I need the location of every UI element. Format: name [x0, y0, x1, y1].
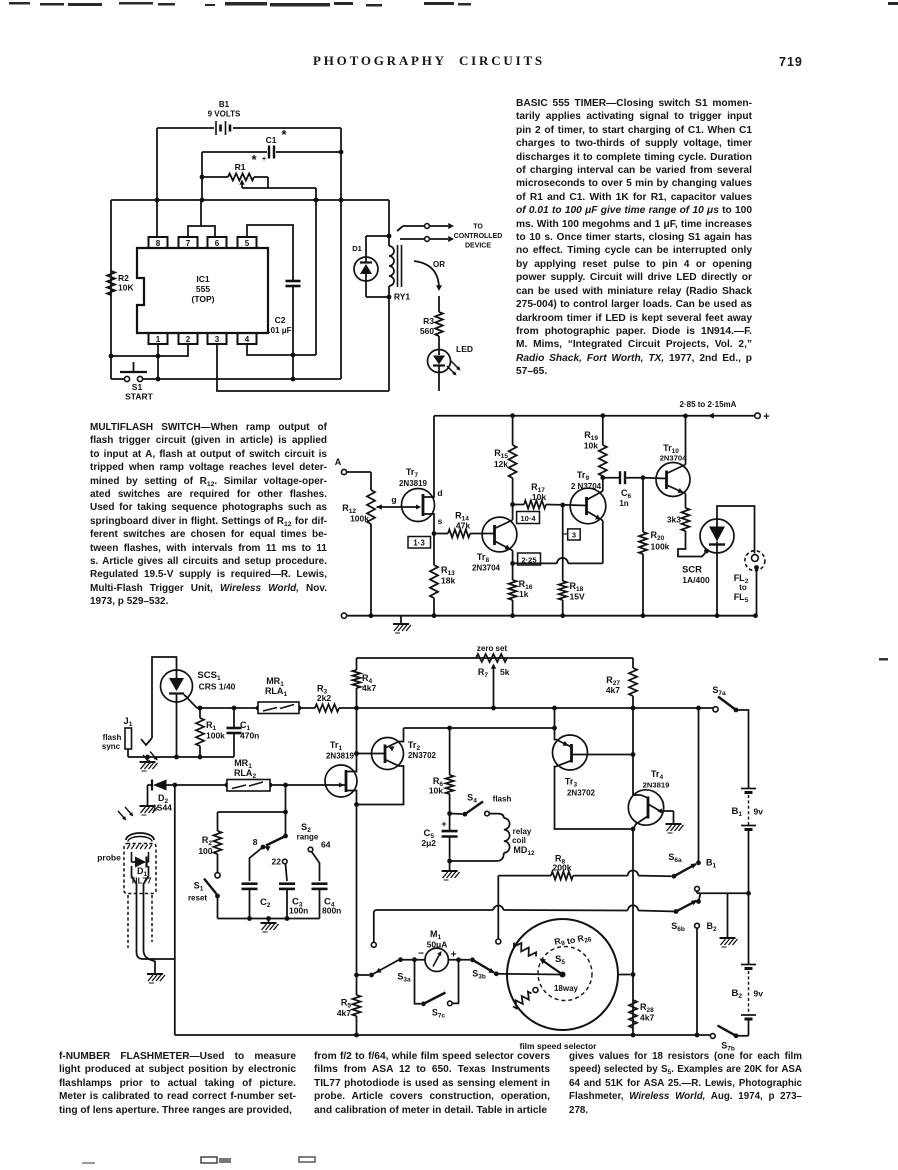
svg-text:flash: flash [103, 733, 122, 742]
svg-text:g: g [391, 495, 396, 505]
transistor Tr8 2N3704 [472, 517, 517, 572]
wire battery right vertical [339, 128, 344, 379]
battery B2 9V [732, 893, 764, 1036]
resistor R28 4k7 [629, 1000, 654, 1028]
svg-text:100k: 100k [651, 542, 670, 552]
capacitor C5 2u2 [421, 814, 457, 864]
svg-text:R2: R2 [118, 273, 129, 283]
svg-text:to: to [739, 583, 747, 592]
resistor R8 200k [498, 854, 671, 880]
wire dial to R28 [618, 974, 631, 976]
wire RLA2 to Tr1 gate [270, 783, 327, 788]
wire to SCR gate [678, 531, 709, 557]
pin 2 [179, 333, 198, 344]
wire SCR anode loop [717, 506, 755, 554]
light arrows probe [118, 807, 133, 821]
svg-text:MD12: MD12 [513, 845, 535, 857]
svg-text:zero set: zero set [477, 644, 508, 653]
svg-text:2 N3704: 2 N3704 [571, 482, 602, 491]
svg-text:22: 22 [272, 857, 282, 867]
relay contact upper TO CONTROLLED DEVICE [397, 223, 454, 231]
rectifier MR1 RLA2 [225, 758, 273, 791]
probe body and cable [132, 866, 175, 964]
svg-text:Tr4: Tr4 [651, 769, 664, 781]
node + supply terminal 2.85 to 2.15mA [434, 400, 770, 423]
relay RY1 [387, 200, 411, 391]
svg-text:C1: C1 [266, 135, 277, 145]
svg-text:+: + [451, 950, 457, 961]
long probe vertical [174, 785, 176, 1035]
pin 8 [149, 237, 168, 248]
wire S6b B2 drop [695, 928, 700, 1037]
resistor R17 10k [513, 482, 569, 509]
svg-text:3: 3 [572, 531, 576, 540]
rail bottom [175, 1034, 710, 1036]
transistor Tr2 2N3702 [357, 728, 437, 805]
transistor Tr3 2N3702 [552, 706, 635, 832]
svg-text:3: 3 [215, 335, 220, 344]
OR arrow [414, 260, 445, 291]
switch S1 reset [188, 873, 220, 919]
wire main horizontal bus [111, 199, 389, 201]
svg-text:2N3704: 2N3704 [660, 454, 687, 463]
wire Tr10 collector [683, 414, 688, 465]
svg-text:18k: 18k [441, 576, 455, 586]
wire pins 7-6 bracket [188, 200, 215, 237]
resistor R20 100k [639, 475, 670, 618]
wire pin 2 drop [109, 344, 188, 358]
label TO CONTROLLED DEVICE [454, 224, 503, 250]
svg-text:−: − [418, 949, 424, 960]
svg-text:18way: 18way [554, 984, 579, 993]
svg-text:SCS1: SCS1 [197, 670, 221, 682]
ground symbol C5 [442, 861, 460, 880]
svg-text:(TOP): (TOP) [192, 294, 215, 304]
capacitor C2 [242, 847, 271, 921]
scan artifacts top edge [9, 2, 898, 7]
thyristor SCS1 CRS 1/40 [161, 670, 236, 708]
svg-text:10k: 10k [532, 492, 546, 502]
svg-text:100: 100 [198, 846, 212, 856]
svg-text:10k: 10k [429, 786, 443, 796]
wire Tr9 emitter vertical [602, 521, 604, 564]
switch S4 flash [447, 793, 511, 817]
resistor R13 18k [430, 534, 455, 619]
LED [428, 344, 474, 391]
svg-text:2k2: 2k2 [317, 693, 331, 703]
resistor R3 560 [420, 296, 443, 350]
node s junction [432, 531, 437, 536]
svg-text:A: A [335, 457, 342, 467]
resistor R19 10k [584, 413, 607, 491]
svg-text:S7a: S7a [712, 685, 726, 697]
rail 3 [404, 726, 557, 731]
potentiometer R7 5k zero set [476, 644, 510, 710]
wire left vertical [110, 200, 112, 379]
relay contact lower [400, 236, 454, 242]
svg-text:1S44: 1S44 [152, 803, 172, 813]
wire pin 3 drop rail [217, 344, 389, 391]
resistor 3k3 [667, 494, 690, 532]
resistor R3 2k2 [315, 684, 339, 712]
svg-text:47k: 47k [456, 521, 470, 531]
wire to R2 [218, 785, 288, 836]
wire R1 wiper vertical [314, 188, 319, 355]
svg-text:555: 555 [196, 284, 210, 294]
film speed selector dial S5 [496, 919, 618, 1051]
svg-text:200k: 200k [553, 863, 572, 873]
svg-text:FL5: FL5 [734, 592, 749, 604]
svg-text:100n: 100n [289, 906, 308, 916]
svg-text:8: 8 [156, 239, 161, 248]
svg-text:S7c: S7c [432, 1008, 446, 1020]
svg-text:2N3819: 2N3819 [643, 781, 670, 790]
svg-text:9v: 9v [754, 807, 764, 817]
svg-text:TO: TO [473, 224, 483, 231]
wire emitter link with hop [513, 558, 603, 564]
rectifier MR1 RLA1 [256, 676, 302, 714]
svg-text:1: 1 [156, 335, 161, 344]
ground symbol J1 [140, 757, 158, 771]
svg-text:4k7: 4k7 [337, 1008, 351, 1018]
svg-text:2N3819: 2N3819 [399, 479, 428, 488]
svg-text:1k: 1k [519, 589, 529, 599]
svg-text:5: 5 [245, 239, 250, 248]
switch S7b [710, 1026, 748, 1053]
resistor R18 15V [559, 503, 585, 618]
svg-text:Tr9: Tr9 [577, 470, 590, 482]
resistor R2 100 [198, 812, 221, 873]
svg-text:100k: 100k [350, 514, 369, 524]
capacitor C4 800n [308, 840, 341, 919]
resistor R12 100k pot [342, 472, 419, 616]
wire S6b feed line [371, 905, 676, 947]
resistor R14 47k [434, 511, 481, 538]
svg-text:+: + [441, 819, 446, 829]
svg-text:S4: S4 [467, 793, 477, 805]
svg-text:relay: relay [513, 827, 532, 836]
svg-text:800n: 800n [322, 906, 341, 916]
wire pin 4 drop [247, 344, 316, 355]
pin 4 [238, 333, 257, 344]
svg-text:50μA: 50μA [427, 940, 448, 950]
svg-text:CONTROLLED: CONTROLLED [454, 233, 503, 240]
svg-text:S1: S1 [132, 382, 143, 392]
pin 3 [208, 333, 227, 344]
test point 10.4 [517, 512, 540, 524]
transistor Tr10 2N3704 [643, 443, 690, 497]
switch S3a [357, 957, 412, 983]
resistor R15 12k [494, 413, 517, 520]
svg-text:+: + [262, 156, 266, 163]
svg-text:RY1: RY1 [394, 292, 410, 302]
svg-text:4: 4 [245, 335, 250, 344]
svg-text:2N3702: 2N3702 [567, 789, 596, 798]
svg-text:*: * [281, 127, 287, 142]
resistor R1 potentiometer [202, 152, 316, 188]
SCR 1A/400 [682, 519, 734, 585]
svg-text:3k3: 3k3 [667, 515, 681, 525]
scan artifacts bottom edge [82, 658, 888, 1164]
svg-text:C2: C2 [260, 897, 271, 909]
svg-text:1·3: 1·3 [413, 539, 425, 548]
transistor Tr1 2N3819 [325, 708, 359, 807]
ground symbol caps [261, 916, 279, 932]
wire B1 contact vertical [696, 706, 701, 863]
relay coil MD12 [450, 814, 535, 861]
svg-text:Tr1: Tr1 [330, 740, 343, 752]
probe hatch strip [127, 845, 152, 850]
pin 6 [208, 237, 227, 248]
svg-text:R1: R1 [235, 162, 246, 172]
svg-text:R7: R7 [478, 667, 489, 679]
svg-text:9 VOLTS: 9 VOLTS [208, 110, 241, 119]
IC U1 555 body [137, 248, 268, 333]
capacitor C2 .01uF [268, 281, 300, 381]
transistor Tr9 2N3704 [569, 470, 606, 524]
light arrows D2 [143, 752, 158, 765]
ground symbol probe [147, 964, 165, 983]
svg-text:1A/400: 1A/400 [682, 575, 710, 585]
switch S2 range [253, 822, 319, 851]
resistor R4 4k7 [353, 658, 377, 710]
wire S6b node line [697, 891, 751, 896]
switch S6b [671, 886, 717, 933]
svg-text:sync: sync [102, 742, 121, 751]
capacitor C1 470n [227, 706, 260, 757]
wire pin 1 drop [156, 344, 161, 381]
svg-text:8: 8 [253, 837, 258, 847]
ground symbol D2 [140, 785, 158, 815]
svg-text:2μ2: 2μ2 [421, 838, 436, 848]
connector FL2 to FL5 [734, 551, 765, 618]
switch S3b [448, 957, 498, 980]
capacitor C6 1n [603, 471, 643, 508]
transistor Tr4 2N3819 [628, 769, 673, 829]
diode D1 [352, 236, 389, 297]
battery B1 9 VOLTS [157, 100, 341, 135]
ground rail bottom [341, 613, 756, 618]
svg-text:probe: probe [97, 853, 121, 863]
svg-text:2·85 to 2·15mA: 2·85 to 2·15mA [680, 400, 737, 409]
svg-text:4k7: 4k7 [640, 1013, 654, 1023]
ground symbol [393, 616, 411, 633]
svg-text:10K: 10K [118, 283, 134, 293]
svg-text:10·4: 10·4 [520, 514, 536, 523]
transistor Tr7 2N3819 JFET [391, 416, 442, 534]
pin 1 [149, 333, 168, 344]
svg-text:B2: B2 [732, 988, 743, 1000]
svg-text:SCR: SCR [682, 565, 702, 576]
svg-text:12k: 12k [494, 459, 508, 469]
svg-text:reset: reset [188, 894, 207, 903]
svg-text:2N3819: 2N3819 [326, 752, 355, 761]
svg-text:S6b: S6b [671, 921, 685, 933]
svg-text:Tr7: Tr7 [406, 467, 419, 479]
svg-text:*: * [251, 152, 257, 167]
test point 3 [563, 529, 581, 540]
battery B1 9V [732, 710, 764, 893]
wire bias vertical [632, 708, 634, 795]
svg-text:S6a: S6a [668, 852, 682, 864]
wire C1 left drop [200, 152, 205, 202]
svg-text:B1: B1 [219, 100, 230, 109]
svg-text:2N3702: 2N3702 [408, 751, 437, 760]
wire SCS1 anode hook to J1 [141, 657, 177, 745]
switch S7a [712, 685, 738, 712]
svg-text:R20: R20 [651, 530, 665, 542]
svg-text:flash: flash [493, 795, 512, 804]
svg-text:LED: LED [456, 344, 473, 354]
pin 5 [238, 237, 257, 248]
switch S1 START [111, 362, 341, 402]
switch S6a [668, 852, 716, 879]
diode D2 1S44 [148, 780, 228, 813]
svg-text:.01 μF: .01 μF [268, 326, 291, 335]
pin 7 [179, 237, 198, 248]
svg-text:+: + [763, 411, 769, 423]
rail top [357, 657, 634, 659]
svg-text:OR: OR [433, 260, 445, 269]
svg-text:64: 64 [321, 840, 331, 850]
resistor R27 4k7 [606, 658, 637, 710]
wire battery left vertical [155, 128, 160, 237]
svg-text:10k: 10k [584, 441, 598, 451]
wire SCR cathode [715, 545, 720, 619]
svg-text:7: 7 [186, 239, 191, 248]
svg-text:d: d [437, 488, 442, 498]
wire pin 5 to C2 [247, 225, 293, 280]
resistor R16 1k [509, 551, 533, 619]
wire SCS1 cathode [176, 702, 178, 757]
svg-text:S7b: S7b [721, 1041, 735, 1053]
wire Tr3 collector net vertical [631, 829, 636, 1037]
svg-text:Tr3: Tr3 [565, 777, 578, 789]
capacitor C3 100n [272, 857, 309, 921]
wire R8 drop [496, 876, 501, 944]
svg-text:D1: D1 [352, 244, 362, 253]
svg-text:B1: B1 [732, 806, 743, 818]
svg-text:9v: 9v [754, 989, 764, 999]
svg-text:1n: 1n [619, 499, 628, 508]
svg-text:B1: B1 [706, 858, 717, 870]
resistor R6 10k [429, 728, 454, 814]
ground rail upper [128, 755, 234, 760]
test point 1.3 [408, 537, 431, 549]
svg-text:100k: 100k [206, 731, 225, 741]
svg-text:6: 6 [215, 239, 220, 248]
svg-text:S1: S1 [194, 881, 204, 893]
svg-text:J1: J1 [124, 716, 133, 728]
svg-text:IC1: IC1 [196, 274, 210, 284]
svg-text:C2: C2 [275, 315, 286, 325]
probe dashed housing [124, 844, 156, 949]
connector J1 flash sync [102, 716, 133, 757]
svg-text:R3: R3 [423, 316, 434, 326]
svg-text:S5: S5 [555, 954, 565, 966]
svg-text:2N3704: 2N3704 [472, 564, 501, 573]
svg-text:560: 560 [420, 326, 434, 336]
svg-text:RLA1: RLA1 [265, 686, 288, 698]
ground symbol battery mid [720, 893, 738, 947]
resistor R2 10K [107, 271, 134, 295]
svg-text:Tr8: Tr8 [477, 552, 490, 564]
svg-text:15V: 15V [570, 592, 585, 602]
rail 2 positive line [197, 707, 715, 709]
ground symbol Tr4 [666, 811, 684, 833]
svg-text:coil: coil [512, 836, 526, 845]
svg-text:RLA2: RLA2 [234, 768, 257, 780]
test point 2.25 [518, 553, 541, 565]
svg-text:4k7: 4k7 [362, 683, 376, 693]
svg-text:film speed selector: film speed selector [519, 1041, 597, 1051]
label probe [97, 853, 121, 863]
node A input [335, 457, 371, 475]
svg-text:S3b: S3b [472, 969, 486, 981]
svg-text:470n: 470n [240, 731, 259, 741]
svg-text:5k: 5k [500, 667, 510, 677]
switch S7c [415, 960, 459, 1020]
svg-text:4k7: 4k7 [606, 685, 620, 695]
svg-text:DEVICE: DEVICE [465, 243, 491, 250]
meter M1 50uA [401, 929, 457, 972]
wire caps bottom rail [218, 918, 320, 920]
photodiode D1 TIL77 [131, 852, 152, 886]
capacitor C1 [202, 127, 341, 163]
resistor R1 100k [196, 706, 225, 757]
svg-text:range: range [297, 833, 319, 842]
svg-text:s: s [438, 516, 443, 526]
svg-text:2: 2 [186, 335, 191, 344]
resistor R5 4k7 [337, 805, 361, 1038]
svg-text:S3a: S3a [397, 972, 411, 984]
probe lens [126, 833, 154, 842]
svg-text:START: START [125, 392, 154, 402]
svg-text:B2: B2 [706, 921, 717, 933]
svg-text:CRS 1/40: CRS 1/40 [199, 682, 236, 692]
